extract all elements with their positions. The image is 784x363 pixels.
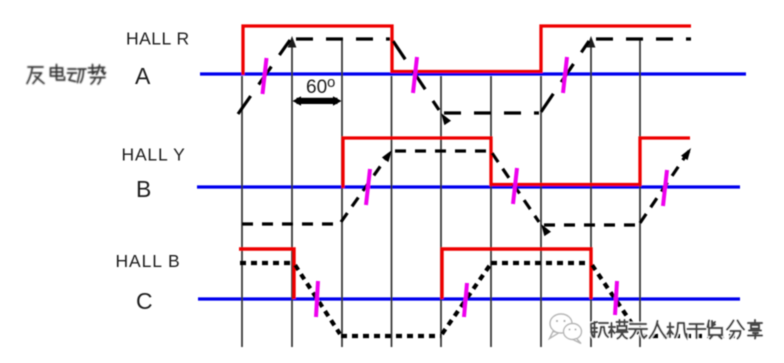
- watermark logo (chat bubbles): [550, 314, 582, 344]
- wire vertical grid t9: [639, 40, 641, 347]
- 60 degree span arrow: [293, 96, 342, 105]
- arrowhead back-EMF B rise1 top: [382, 148, 395, 162]
- arrowhead back-EMF B rise3 top: [681, 146, 694, 160]
- svg-text:o: o: [327, 74, 335, 91]
- wire vertical grid t5: [440, 76, 442, 347]
- wire vertical grid t6: [490, 76, 492, 347]
- wire vertical grid t2 with up arrow: [288, 36, 297, 347]
- svg-text:HALL Y: HALL Y: [122, 145, 186, 165]
- svg-text:A: A: [135, 63, 151, 89]
- signal HALL Y red trace: [343, 138, 690, 188]
- arrowhead back-EMF B fall end: [538, 222, 551, 236]
- wire vertical grid t4: [391, 76, 393, 347]
- wire vertical grid t1: [241, 76, 243, 347]
- zero-crossing mark B1: [366, 169, 370, 205]
- signal back-EMF C dotted trace: [240, 263, 740, 336]
- signal HALL B red trace: [239, 249, 591, 299]
- zero-crossing mark B3: [663, 170, 667, 206]
- zero-crossing mark A2: [413, 57, 417, 93]
- svg-text:HALL R: HALL R: [126, 29, 190, 49]
- wire vertical grid t7: [540, 76, 542, 347]
- zero-crossing mark A1: [263, 58, 267, 94]
- signal back-EMF A dashed trace: [238, 39, 691, 114]
- zero-crossing mark C2: [464, 283, 467, 317]
- zero-crossing mark A3: [563, 57, 567, 93]
- wire vertical grid t3: [341, 40, 343, 347]
- svg-text:HALL B: HALL B: [116, 251, 181, 271]
- zero-crossing mark C3: [615, 281, 617, 315]
- wire blue zero line A: [200, 72, 746, 75]
- signal back-EMF B dashed trace: [242, 148, 691, 225]
- signal HALL R red trace: [243, 26, 691, 75]
- wire blue zero line C: [198, 297, 740, 300]
- label 反电动势 (back-EMF, hand-drawn strokes): [27, 65, 106, 85]
- svg-text:C: C: [136, 288, 153, 314]
- svg-text:60: 60: [306, 77, 327, 98]
- watermark text 航模无人机干货分享 (hand-drawn strokes with white halo): [591, 320, 762, 339]
- zero-crossing mark B2: [513, 168, 517, 204]
- wire vertical grid t8 with up arrow: [587, 36, 596, 347]
- arrowhead back-EMF A fall end: [438, 111, 451, 125]
- svg-text:B: B: [136, 176, 151, 202]
- wire blue zero line B: [197, 185, 740, 188]
- zero-crossing mark C1: [316, 281, 318, 317]
